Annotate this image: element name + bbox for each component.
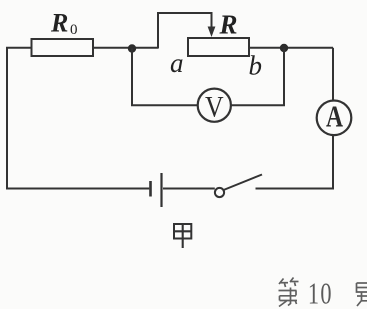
character di (bamboo radical) — [279, 279, 284, 285]
wire R0 to riser — [93, 47, 158, 49]
wire slider arrow stem — [211, 12, 213, 29]
character di (body) — [279, 290, 297, 292]
slider arrowhead — [208, 27, 216, 38]
wire right rail down to ammeter — [332, 48, 334, 101]
wire voltmeter branch right — [231, 49, 284, 106]
switch pivot — [215, 188, 224, 197]
wire ammeter to bottom-right corner — [256, 135, 334, 189]
svg-text:0: 0 — [70, 22, 78, 38]
wire top-left to R0 — [6, 47, 32, 49]
svg-text:R: R — [219, 10, 238, 40]
svg-text:V: V — [205, 91, 224, 124]
caption: di 10 ti (question 10), partially cut at right — [279, 278, 299, 307]
ammeter A — [317, 101, 352, 136]
battery short plate — [149, 181, 152, 197]
svg-text:a: a — [170, 48, 184, 78]
node junction dot right — [280, 44, 288, 52]
svg-text:R: R — [50, 9, 68, 38]
caption jia (drawn strokes) — [174, 224, 191, 249]
wire voltmeter branch left — [132, 49, 198, 106]
wire slider riser — [158, 13, 212, 49]
voltmeter V — [198, 89, 231, 122]
node junction dot left — [128, 44, 136, 52]
rheostat R body — [188, 38, 249, 56]
wire left rail — [6, 47, 8, 189]
wire rheostat to top-right corner — [249, 47, 333, 49]
svg-text:0: 0 — [320, 276, 331, 309]
svg-text:1: 1 — [308, 276, 319, 309]
svg-text:b: b — [249, 51, 263, 81]
character ti (partially visible at edge) — [357, 283, 367, 306]
switch blade — [224, 175, 263, 191]
wire battery to switch — [163, 188, 215, 190]
resistor R0 — [32, 39, 94, 56]
svg-text:A: A — [326, 98, 343, 133]
caption digits 10 — [308, 276, 332, 309]
wire bottom-left to battery — [6, 188, 149, 190]
battery long plate — [160, 173, 162, 207]
